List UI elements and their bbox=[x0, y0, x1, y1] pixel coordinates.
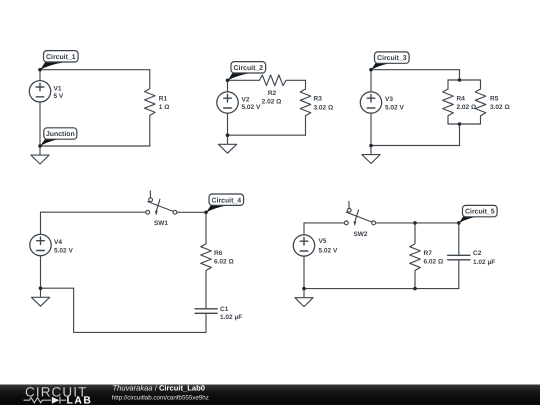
value label R2 bbox=[262, 90, 282, 106]
switch SW1 bbox=[146, 191, 173, 214]
voltage source V1 bbox=[29, 70, 50, 146]
voltage source V5 bbox=[293, 223, 314, 289]
svg-text:1.02 µF: 1.02 µF bbox=[473, 259, 495, 266]
resistor R2 bbox=[259, 75, 305, 86]
junction bbox=[369, 144, 373, 148]
value label C2 bbox=[473, 250, 495, 266]
svg-text:R7: R7 bbox=[424, 250, 433, 257]
net label Junction bbox=[40, 128, 77, 147]
svg-text:Circuit_3: Circuit_3 bbox=[377, 55, 407, 62]
value label R7 bbox=[424, 250, 444, 266]
junction bbox=[413, 221, 417, 225]
junction bbox=[226, 79, 230, 83]
footer bar bbox=[0, 384, 540, 405]
value label V2 bbox=[242, 97, 261, 112]
svg-text:2.02 Ω: 2.02 Ω bbox=[457, 104, 477, 111]
value label V4 bbox=[54, 239, 73, 254]
switch SW2 circles bbox=[372, 221, 376, 225]
svg-text:Circuit_5: Circuit_5 bbox=[465, 209, 495, 216]
wire bbox=[41, 287, 74, 289]
value label R5 bbox=[490, 96, 510, 111]
svg-text:R1: R1 bbox=[159, 95, 168, 102]
svg-text:6.02 Ω: 6.02 Ω bbox=[214, 259, 234, 266]
resistor R7 bbox=[410, 223, 421, 289]
junction bbox=[204, 211, 208, 215]
svg-text:5.02 V: 5.02 V bbox=[319, 247, 338, 254]
junction bbox=[38, 144, 42, 148]
value label SW2 bbox=[353, 231, 367, 238]
wire bbox=[448, 123, 481, 125]
net label Circuit_5 bbox=[459, 205, 497, 223]
svg-text:R4: R4 bbox=[457, 96, 466, 103]
switch SW1 arrow head bbox=[155, 211, 158, 216]
value label R1 bbox=[159, 95, 170, 111]
svg-text:Thuvarakaa / Circuit_Lab0: Thuvarakaa / Circuit_Lab0 bbox=[113, 384, 205, 393]
svg-text:C2: C2 bbox=[473, 250, 482, 257]
voltage source V2 bbox=[217, 80, 238, 135]
resistor R3 bbox=[300, 89, 311, 135]
svg-text:1.02 µF: 1.02 µF bbox=[220, 314, 242, 321]
net label Circuit_4 bbox=[206, 194, 244, 213]
ground bbox=[362, 146, 380, 164]
net label Circuit_2 bbox=[228, 62, 266, 81]
svg-text:V4: V4 bbox=[54, 239, 62, 246]
net label Circuit_3 bbox=[371, 52, 409, 70]
CircuitLab logo wire art bbox=[24, 397, 67, 404]
ground bbox=[31, 288, 49, 306]
svg-text:V2: V2 bbox=[242, 97, 250, 104]
svg-text:C1: C1 bbox=[220, 306, 229, 313]
junction bbox=[302, 287, 306, 291]
CircuitLab logo diode bbox=[52, 397, 60, 404]
svg-text:Circuit_2: Circuit_2 bbox=[234, 65, 264, 72]
junction bbox=[457, 221, 461, 225]
switch SW2 bbox=[344, 202, 371, 225]
svg-text:V3: V3 bbox=[385, 96, 393, 103]
junction bbox=[458, 78, 462, 82]
ground bbox=[295, 289, 313, 307]
svg-text:R3: R3 bbox=[314, 95, 323, 102]
svg-text:5 V: 5 V bbox=[54, 93, 64, 100]
value label V1 bbox=[54, 85, 64, 100]
wire bbox=[459, 70, 461, 80]
wire bbox=[73, 288, 75, 332]
svg-text:LAB: LAB bbox=[67, 396, 93, 405]
junction bbox=[458, 122, 462, 126]
svg-text:SW1: SW1 bbox=[154, 220, 168, 227]
svg-text:Circuit_4: Circuit_4 bbox=[212, 197, 242, 204]
voltage source V3 bbox=[360, 70, 381, 146]
wire bbox=[41, 211, 146, 213]
svg-text:Junction: Junction bbox=[46, 131, 75, 138]
svg-text:2.02 Ω: 2.02 Ω bbox=[262, 99, 282, 106]
value label R3 bbox=[314, 95, 334, 111]
junction bbox=[39, 286, 43, 290]
svg-text:3.02 Ω: 3.02 Ω bbox=[490, 104, 510, 111]
wire bbox=[40, 145, 150, 147]
wire bbox=[228, 134, 306, 136]
wire bbox=[448, 79, 481, 81]
wire bbox=[40, 69, 150, 71]
value label C1 bbox=[220, 306, 242, 321]
wire bbox=[376, 222, 459, 224]
wire bbox=[371, 69, 460, 71]
switch SW2 arrow head bbox=[354, 222, 357, 227]
value label R4 bbox=[457, 96, 477, 111]
svg-text:5.02 V: 5.02 V bbox=[54, 247, 73, 254]
svg-text:V1: V1 bbox=[54, 85, 62, 92]
junction bbox=[38, 68, 42, 72]
capacitor C1 bbox=[195, 309, 217, 333]
svg-text:Circuit_1: Circuit_1 bbox=[46, 54, 76, 61]
svg-text:5.02 V: 5.02 V bbox=[242, 104, 261, 111]
value label V3 bbox=[385, 96, 404, 111]
svg-text:R2: R2 bbox=[268, 90, 277, 97]
svg-text:5.02 V: 5.02 V bbox=[385, 104, 404, 111]
junction bbox=[226, 133, 230, 137]
wire bbox=[305, 80, 307, 89]
wire bbox=[371, 145, 460, 147]
wire bbox=[228, 79, 260, 81]
voltage source V4 bbox=[30, 212, 51, 288]
wire bbox=[304, 222, 344, 224]
svg-text:V5: V5 bbox=[319, 238, 327, 245]
svg-text:1 Ω: 1 Ω bbox=[159, 104, 170, 111]
junction bbox=[413, 287, 417, 291]
switch SW1 circles bbox=[173, 210, 177, 214]
resistor R6 bbox=[201, 212, 212, 308]
wire bbox=[459, 124, 461, 146]
junction bbox=[369, 68, 373, 72]
wire bbox=[74, 331, 206, 333]
svg-text:R6: R6 bbox=[214, 250, 223, 257]
wire bbox=[177, 211, 206, 213]
svg-text:SW2: SW2 bbox=[353, 231, 367, 238]
svg-text:3.02 Ω: 3.02 Ω bbox=[314, 104, 334, 111]
value label R6 bbox=[214, 250, 234, 266]
capacitor C2 bbox=[448, 223, 470, 289]
resistor R1 bbox=[145, 70, 156, 146]
value label SW1 bbox=[154, 220, 168, 227]
resistor R4 bbox=[443, 80, 454, 124]
svg-text:6.02 Ω: 6.02 Ω bbox=[424, 259, 444, 266]
resistor R5 bbox=[475, 80, 486, 124]
net label Circuit_1 bbox=[40, 51, 78, 70]
ground bbox=[31, 146, 49, 164]
value label V5 bbox=[319, 238, 338, 254]
ground bbox=[218, 135, 236, 153]
svg-text:http://circuitlab.com/canfb555: http://circuitlab.com/canfb555xe9hz bbox=[112, 395, 209, 402]
wire bbox=[304, 288, 459, 290]
svg-text:R5: R5 bbox=[490, 96, 499, 103]
